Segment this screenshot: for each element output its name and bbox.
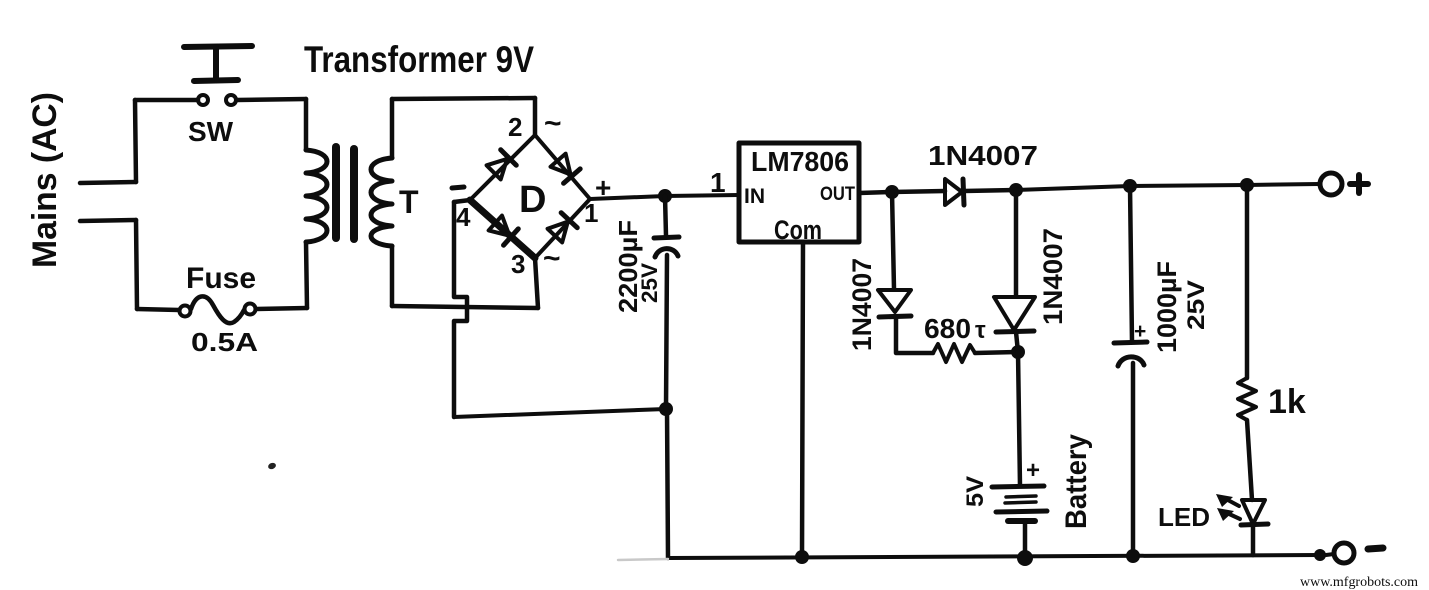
LED arrows <box>1216 494 1240 521</box>
node cap2200 top junction <box>658 189 672 203</box>
label 5V <box>962 476 989 507</box>
svg-text:3: 3 <box>511 249 525 279</box>
wire negative to cap junction <box>454 409 666 417</box>
svg-text:Com: Com <box>774 215 822 245</box>
svg-text:1N4007: 1N4007 <box>847 258 877 351</box>
svg-text:τ: τ <box>975 317 986 344</box>
label 1N4007 right shunt <box>1038 228 1068 325</box>
label 680 <box>924 313 986 344</box>
wire mains neutral drop <box>136 220 137 309</box>
wire left shunt diode to resistor <box>896 317 933 353</box>
wire battery to bottom rail <box>1023 521 1028 558</box>
wire secondary top riser <box>390 99 395 158</box>
wire mains to fuse <box>137 309 179 310</box>
wire resistor to LED <box>1247 420 1252 500</box>
label 1N4007 series <box>928 140 1038 171</box>
svg-text:1000µF: 1000µF <box>1152 261 1182 353</box>
node negative junction <box>659 402 673 416</box>
fuse 0.5A <box>180 296 256 323</box>
svg-text:www.mfgrobots.com: www.mfgrobots.com <box>1300 575 1418 590</box>
svg-text:25V: 25V <box>1183 280 1210 330</box>
wire bottom rail <box>668 555 1320 558</box>
svg-text:5V: 5V <box>962 476 989 507</box>
wire negative junction to bottom rail <box>667 409 668 558</box>
svg-text:OUT: OUT <box>820 184 855 205</box>
label pin 1 <box>584 198 598 228</box>
wire negative drop with jog <box>454 202 467 417</box>
label 1000uF <box>1152 261 1182 353</box>
regulator LM7806 <box>739 143 859 245</box>
wire to switch left contact <box>135 98 198 103</box>
svg-text:680: 680 <box>924 313 971 344</box>
node minus rail dot <box>1314 549 1326 561</box>
svg-text:LED: LED <box>1158 502 1210 532</box>
label Mains (AC) <box>26 92 64 268</box>
wire secondary bottom drop <box>390 246 395 306</box>
LED <box>1241 500 1268 525</box>
label + cap1000 <box>1134 320 1146 343</box>
wire secondary bottom to bridge node 3 <box>392 306 538 308</box>
svg-text:25V: 25V <box>637 263 662 303</box>
wire mains neutral stub <box>80 220 136 221</box>
wire OUT to junction <box>859 192 892 193</box>
label - bridge <box>452 187 464 188</box>
label pin 3 <box>511 249 525 279</box>
svg-text:IN: IN <box>744 185 765 208</box>
label T <box>399 184 419 220</box>
wire LED branch drop <box>1245 185 1250 378</box>
label pin 4 <box>456 202 471 232</box>
wire rail to plus terminal <box>1247 184 1319 185</box>
svg-text:+: + <box>1134 320 1146 343</box>
node series diode junction <box>1009 183 1023 197</box>
node cap1000 bottom junction <box>1126 549 1140 563</box>
watermark <box>1300 575 1418 590</box>
node Com bottom junction <box>795 550 809 564</box>
svg-text:Mains (AC): Mains (AC) <box>26 92 64 268</box>
svg-text:Battery: Battery <box>1060 434 1093 529</box>
svg-text:~: ~ <box>543 242 561 275</box>
svg-text:SW: SW <box>188 116 234 147</box>
transformer core <box>336 147 354 239</box>
label 25V cap1000 <box>1183 280 1210 330</box>
svg-text:4: 4 <box>456 202 471 232</box>
svg-text:1: 1 <box>710 167 726 198</box>
transformer T primary winding <box>306 150 327 242</box>
wire bridge + to IN rail <box>590 195 739 199</box>
wire junction to series diode <box>892 191 945 192</box>
node cap1000 top junction <box>1123 179 1137 193</box>
svg-text:Transformer 9V: Transformer 9V <box>304 39 534 80</box>
switch SW <box>184 46 252 105</box>
label SW <box>188 116 234 147</box>
label + battery <box>1026 457 1040 484</box>
svg-text:1k: 1k <box>1268 383 1306 421</box>
terminal - output <box>1326 543 1383 563</box>
node LED branch junction <box>1240 178 1254 192</box>
wire bridge node3 drop <box>535 258 538 308</box>
svg-text:T: T <box>399 184 419 220</box>
diode 1N4007 series <box>945 179 964 205</box>
label 2200uF <box>613 220 643 313</box>
wire mains live riser <box>135 100 136 182</box>
faint rail stub <box>618 559 668 560</box>
wire primary top riser <box>304 99 309 150</box>
capacitor 1000uF 25V <box>1114 186 1147 556</box>
terminal + output <box>1320 173 1368 195</box>
bridge diode bottom-right <box>547 213 577 243</box>
resistor 1k <box>1238 378 1256 420</box>
battery 5V <box>992 486 1047 521</box>
svg-text:Fuse: Fuse <box>186 262 256 295</box>
label 0.5A <box>191 327 258 357</box>
wire resistor to junction <box>975 352 1018 353</box>
svg-text:1N4007: 1N4007 <box>928 140 1038 171</box>
bridge diode top-left <box>486 150 516 180</box>
wire rail cap1000 to LED branch <box>1130 185 1247 186</box>
diode 1N4007 right shunt <box>994 297 1035 332</box>
wire Com drop <box>802 242 803 557</box>
label D <box>519 179 546 221</box>
wire OUT junction drop <box>892 192 894 289</box>
wire switch to transformer primary top <box>237 99 306 100</box>
label + bridge <box>595 172 611 203</box>
wire secondary top to bridge <box>392 98 535 99</box>
label 25V cap2200 <box>637 263 662 303</box>
node battery bottom junction <box>1017 550 1033 566</box>
wire fuse to primary bottom <box>256 308 307 309</box>
wire junction to right shunt diode <box>1014 190 1019 296</box>
wire LED to bottom rail <box>1251 525 1256 555</box>
wire bridge top drop <box>533 98 538 135</box>
wire rail junction to 1000uF junction <box>1016 186 1130 190</box>
wire bridge node4 stub <box>454 200 470 202</box>
svg-text:LM7806: LM7806 <box>751 146 849 177</box>
svg-text:+: + <box>1026 457 1040 484</box>
wire junction to battery <box>1018 352 1020 486</box>
wire right shunt diode to junction <box>1016 332 1018 352</box>
label LED <box>1158 502 1210 532</box>
bridge diode bottom-left <box>488 215 518 245</box>
bridge diode top-right <box>550 153 580 183</box>
wire series diode to junction <box>964 190 1016 191</box>
node OUT junction <box>885 185 899 199</box>
label pin 1 regulator <box>710 167 726 198</box>
label ~ top <box>544 107 562 140</box>
wire mains live stub <box>80 182 136 183</box>
svg-text:D: D <box>519 179 546 221</box>
label pin 2 <box>508 112 522 142</box>
svg-text:~: ~ <box>544 107 562 140</box>
resistor 680 <box>933 344 975 362</box>
node resistor junction <box>1011 345 1025 359</box>
svg-text:0.5A: 0.5A <box>191 327 258 357</box>
ink blot speck <box>267 462 277 470</box>
label ~ bottom <box>543 242 561 275</box>
diode 1N4007 left shunt <box>878 290 911 317</box>
label Battery <box>1060 434 1093 529</box>
capacitor 2200uF 25V <box>654 196 679 409</box>
svg-text:2: 2 <box>508 112 522 142</box>
transformer T secondary winding <box>371 158 392 246</box>
wire primary bottom drop <box>306 242 307 308</box>
bridge rectifier D diamond <box>470 135 590 258</box>
label 1N4007 left shunt <box>847 258 877 351</box>
label 1k <box>1268 383 1306 421</box>
label Fuse <box>186 262 256 295</box>
svg-text:1N4007: 1N4007 <box>1038 228 1068 325</box>
label Transformer 9V <box>304 39 534 80</box>
